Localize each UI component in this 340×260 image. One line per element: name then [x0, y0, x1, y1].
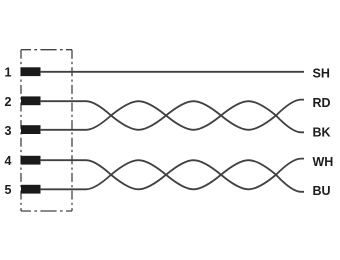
connector outline bottom edge (dash-dot) [21, 210, 72, 212]
wire BU (pin 5, twisted pair bottom) [40, 160, 304, 192]
svg-text:1: 1 [5, 66, 12, 80]
svg-text:3: 3 [5, 124, 12, 138]
wire SH (pin 1, shield) [40, 71, 304, 73]
wire WH (pin 4, twisted pair top) [40, 159, 304, 190]
connector outline left edge (dash-dot) [20, 50, 22, 211]
svg-text:BU: BU [313, 184, 331, 198]
pin 5 contact [21, 185, 41, 194]
svg-text:WH: WH [313, 155, 334, 169]
svg-text:2: 2 [5, 95, 12, 109]
svg-text:5: 5 [5, 183, 12, 197]
pin 2 contact [21, 96, 41, 105]
connector outline top edge (dash-dot) [21, 49, 72, 51]
wire BK (pin 3, twisted pair bottom) [40, 101, 304, 132]
svg-text:RD: RD [313, 96, 331, 110]
pin 4 contact [21, 156, 41, 165]
pin 1 contact [21, 67, 41, 76]
svg-text:BK: BK [313, 125, 331, 139]
svg-text:SH: SH [313, 67, 330, 81]
connector outline right edge (dash-dot) [71, 50, 73, 211]
svg-text:4: 4 [5, 154, 12, 168]
pin 3 contact [21, 125, 41, 134]
wire RD (pin 2, twisted pair top) [40, 100, 304, 130]
